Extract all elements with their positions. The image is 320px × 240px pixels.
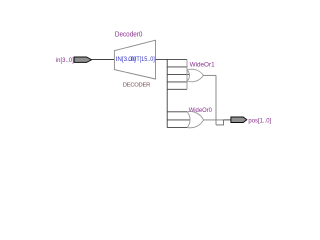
svg-text:DECODER: DECODER [123,83,150,89]
wire WideOr0 output to merge [203,119,223,121]
wire stub bit to WideOr1 [167,66,187,68]
output port pos[1..0] bus arrow [231,117,247,123]
wire stub bit to WideOr1 [167,73,189,75]
wire decoder output to WideOr1 top input [156,58,188,60]
wire stub bit to WideOr1 [167,88,187,90]
wire bus merge jog bottom [216,120,224,125]
wire stub bit to WideOr1 [167,81,187,83]
svg-text:OUT[15..0]: OUT[15..0] [128,57,155,63]
svg-text:WideOr0: WideOr0 [189,107,213,114]
wire WideOr1 output horizontal [203,74,216,76]
wire stub bit to WideOr0 [167,111,187,113]
or-gate U2 WideOr1 input extension line [186,59,188,89]
input port in[3..0] bus arrow [74,57,92,62]
svg-text:in[3..0]: in[3..0] [56,57,74,64]
wire WideOr1 output vertical down [215,75,217,125]
wire input to decoder [91,59,114,61]
wire stub bit to WideOr0 [167,119,190,121]
or-gate U2 WideOr1 body [187,69,203,82]
wire stub bit to WideOr0 [167,127,187,129]
svg-text:WideOr1: WideOr1 [190,61,216,68]
wire bus tap vertical [166,59,168,127]
svg-text:Decoder0: Decoder0 [115,32,143,39]
or-gate U3 WideOr0 body [187,111,203,127]
wire bus to output port [224,119,231,121]
decoder U1 body (trapezoid) [114,40,155,79]
svg-text:pos[1..0]: pos[1..0] [248,117,271,124]
